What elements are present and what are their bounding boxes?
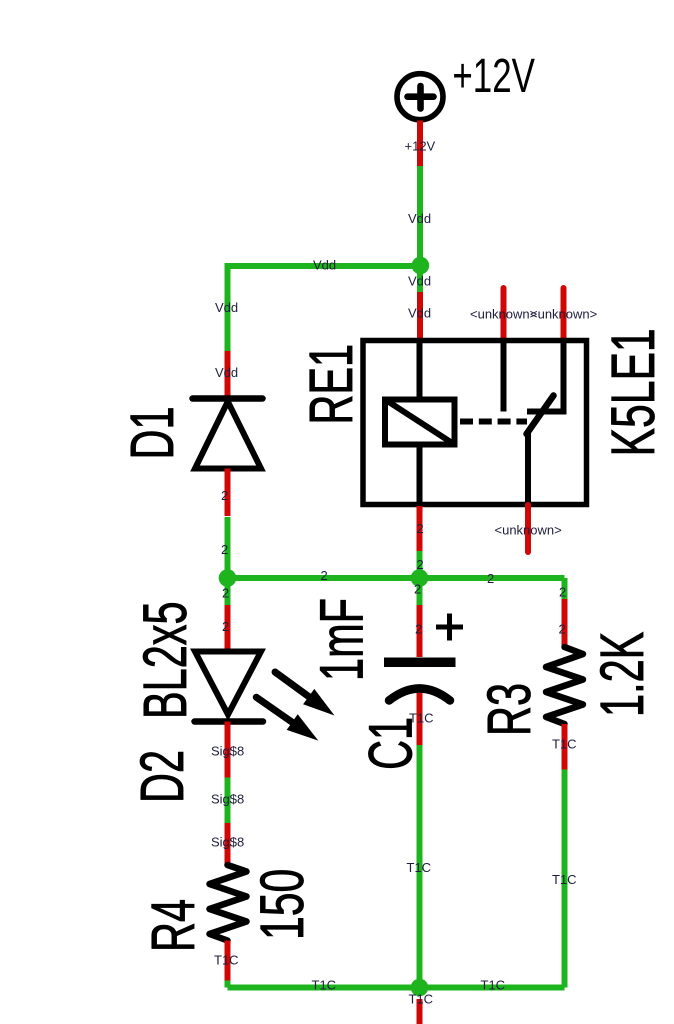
wire net 2 to C1 red — [417, 605, 423, 657]
wire net T1C below R3 red — [562, 724, 568, 770]
wire net 2 to R3 red — [562, 599, 568, 647]
junction node 2 left — [219, 569, 237, 587]
svg-text:2: 2 — [417, 557, 424, 572]
relay switch armature — [527, 396, 554, 435]
wire net 2 to D2 red — [225, 605, 231, 652]
svg-text:Vdd: Vdd — [215, 365, 238, 380]
svg-text:2: 2 — [559, 585, 566, 600]
svg-text:2: 2 — [487, 571, 494, 586]
svg-text:Vdd: Vdd — [408, 306, 431, 321]
wire net Sig$8 to R4 red — [225, 823, 231, 865]
svg-text:2: 2 — [415, 622, 422, 637]
svg-text:Sig$8: Sig$8 — [211, 835, 244, 850]
wire net 2 below D1 red — [225, 469, 231, 517]
svg-text:<unknown>: <unknown> — [470, 307, 537, 322]
relay coil — [385, 400, 455, 445]
svg-text:2: 2 — [559, 622, 566, 637]
svg-text:Vdd: Vdd — [408, 274, 431, 289]
wire net Vdd vertical upper — [417, 166, 423, 266]
pin wire unknown 2 — [561, 288, 567, 340]
svg-text:1mF: 1mF — [309, 598, 377, 681]
pin wire unknown common — [525, 505, 531, 552]
wire net 2 horizontal — [228, 575, 565, 581]
svg-text:K5LE1: K5LE1 — [600, 328, 668, 456]
relay coil lead top — [417, 341, 423, 400]
svg-text:Vdd: Vdd — [313, 258, 336, 273]
wire net 2 below left junction green — [225, 578, 231, 605]
wire net T1C below junction red — [417, 999, 423, 1024]
svg-text:2: 2 — [321, 568, 328, 583]
wire net T1C bottom horizontal — [228, 985, 565, 991]
svg-text:<unknown>: <unknown> — [530, 307, 597, 322]
wire net 2 green to junction — [225, 517, 231, 578]
junction node 2 middle — [411, 569, 429, 587]
wire net 2 below middle junction green — [417, 578, 423, 605]
relay common lead — [525, 433, 531, 505]
svg-text:2: 2 — [417, 521, 424, 536]
wire net T1C bottom left corner green — [225, 981, 231, 988]
wire net T1C right branch green — [562, 770, 568, 988]
resistor R3 — [546, 647, 583, 724]
wire net 2 right corner green — [562, 578, 568, 599]
relay contact 2 lead — [527, 341, 564, 412]
capacitor C1 — [384, 614, 463, 701]
power supply symbol +12V — [397, 74, 443, 120]
svg-text:2: 2 — [222, 586, 229, 601]
svg-text:T1C: T1C — [312, 978, 337, 993]
pin wire unknown 1 — [501, 288, 507, 340]
svg-text:BL2x5: BL2x5 — [132, 601, 200, 719]
svg-text:T1C: T1C — [552, 872, 577, 887]
junction node T1C bottom — [411, 979, 429, 997]
wire net Vdd horizontal — [228, 263, 421, 269]
svg-text:+12V: +12V — [452, 49, 535, 103]
svg-text:T1C: T1C — [214, 953, 239, 968]
wire net 2 relay to junction red — [417, 506, 423, 551]
svg-text:T1C: T1C — [409, 711, 434, 726]
svg-text:Vdd: Vdd — [408, 211, 431, 226]
svg-text:Sig$8: Sig$8 — [211, 744, 244, 759]
relay actuation dashed line — [460, 419, 527, 425]
svg-text:T1C: T1C — [481, 978, 506, 993]
svg-text:<unknown>: <unknown> — [495, 523, 562, 538]
relay coil lead bottom — [417, 444, 423, 505]
wire net +12V vertical — [417, 121, 423, 167]
svg-text:D2: D2 — [129, 750, 197, 803]
junction node Vdd — [412, 257, 430, 275]
wire net Sig$8 green — [225, 778, 231, 824]
svg-text:T1C: T1C — [407, 860, 432, 875]
svg-text:2: 2 — [221, 488, 228, 503]
svg-text:2: 2 — [414, 582, 421, 597]
wire net Vdd left branch red — [225, 351, 231, 397]
wire net T1C C1 to bottom green — [417, 745, 423, 988]
svg-text:Vdd: Vdd — [215, 300, 238, 315]
svg-text:RE1: RE1 — [298, 344, 366, 425]
resistor R4 — [210, 865, 247, 941]
svg-text:150: 150 — [249, 869, 317, 940]
relay RE1 body — [363, 341, 587, 505]
wire net Vdd to relay red — [417, 292, 423, 341]
led D2 light arrow 2 — [256, 697, 318, 740]
svg-text:Sig$8: Sig$8 — [211, 792, 244, 807]
wire net T1C from C1 red — [417, 693, 423, 745]
relay contact 1 lead — [501, 341, 507, 412]
svg-text:2: 2 — [221, 542, 228, 557]
wire net T1C below R4 red — [225, 941, 231, 981]
svg-text:D1: D1 — [119, 406, 187, 459]
svg-text:T1C: T1C — [409, 992, 434, 1007]
wire net Sig$8 red — [225, 722, 231, 778]
svg-text:1.2K: 1.2K — [589, 632, 657, 717]
led D2 light arrow 1 — [275, 672, 335, 716]
svg-text:R3: R3 — [476, 683, 544, 736]
wire net 2 relay to junction green — [417, 551, 423, 578]
diode D1 — [193, 399, 263, 469]
led D2 — [195, 652, 264, 722]
svg-text:T1C: T1C — [552, 737, 577, 752]
svg-text:2: 2 — [222, 619, 229, 634]
wire net Vdd below junction green — [417, 266, 423, 293]
svg-text:+12V: +12V — [405, 139, 436, 154]
svg-text:R4: R4 — [140, 899, 208, 952]
wire net Vdd left branch green — [225, 263, 231, 351]
